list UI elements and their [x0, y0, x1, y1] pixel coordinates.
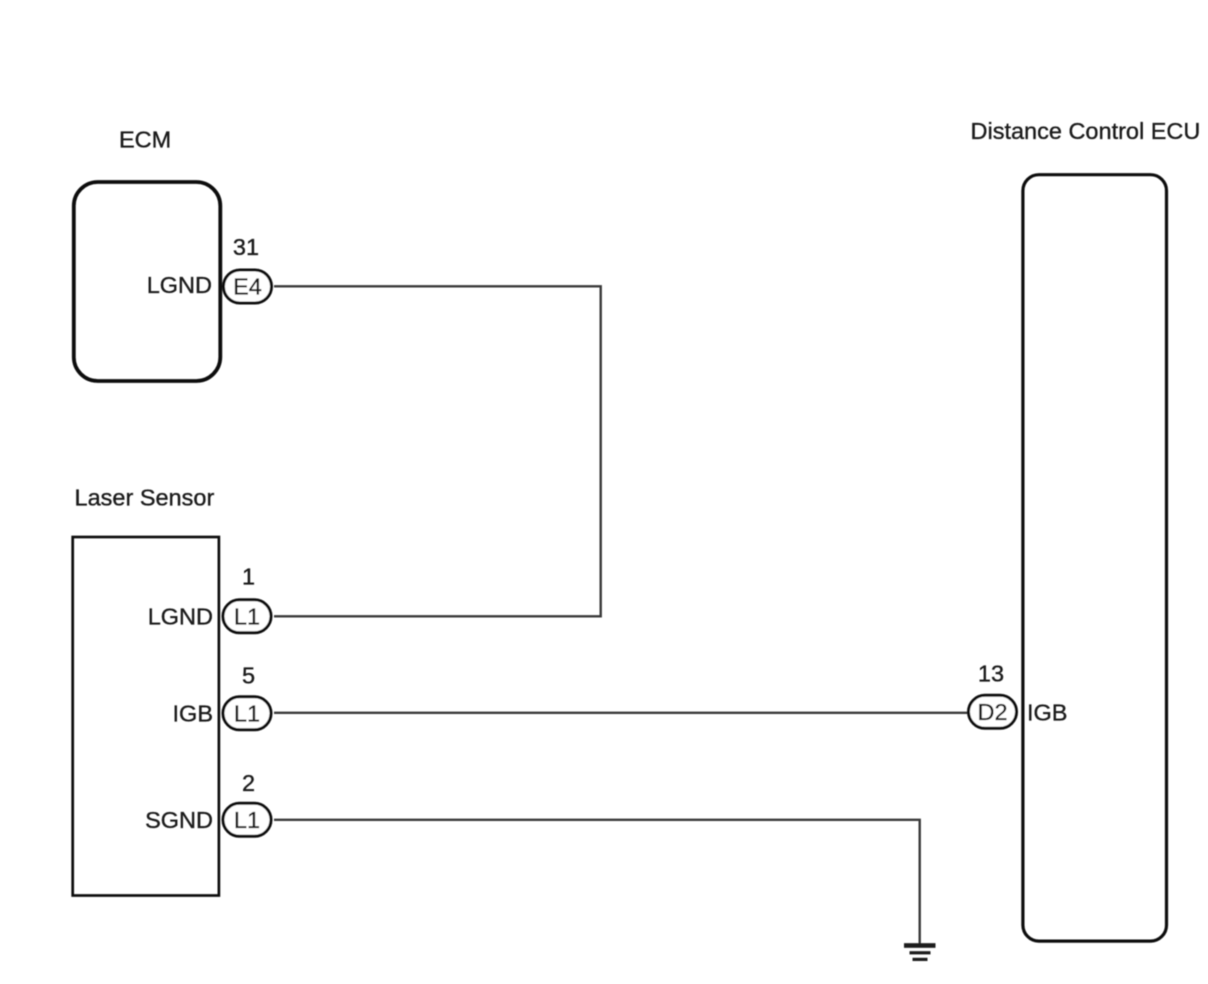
wire LGND: E4 to L1 pin 1: [274, 286, 601, 616]
svg-text:E4: E4: [233, 274, 262, 300]
connector pin D2 (Distance Control ECU pin 13): [969, 695, 1017, 728]
svg-text:L1: L1: [234, 807, 260, 833]
connector pin L1 (pin 1): [223, 600, 271, 633]
Distance Control ECU box U3: [1023, 175, 1167, 941]
svg-text:IGB: IGB: [1027, 700, 1067, 726]
svg-text:ECM: ECM: [119, 127, 171, 153]
svg-text:SGND: SGND: [145, 807, 213, 833]
Laser Sensor box U2: [73, 537, 219, 896]
svg-text:2: 2: [242, 770, 255, 796]
svg-text:LGND: LGND: [148, 604, 213, 630]
wire SGND: L1 pin 2 to ground: [274, 820, 920, 944]
ground symbol: [904, 943, 936, 961]
ECM box U1: [74, 182, 221, 381]
svg-text:1: 1: [242, 564, 255, 590]
wire IGB: L1 pin 5 to D2 pin 13: [274, 712, 968, 714]
connector pin E4 (ECM pin 31): [224, 270, 272, 303]
svg-text:LGND: LGND: [147, 272, 212, 298]
svg-text:L1: L1: [234, 604, 260, 630]
svg-text:5: 5: [242, 663, 255, 689]
svg-text:D2: D2: [977, 699, 1007, 725]
svg-text:IGB: IGB: [173, 701, 213, 727]
svg-text:L1: L1: [234, 701, 260, 727]
connector pin L1 (pin 5): [223, 697, 271, 730]
connector pin L1 (pin 2): [223, 803, 271, 836]
svg-text:Laser Sensor: Laser Sensor: [75, 485, 215, 511]
svg-text:13: 13: [978, 661, 1004, 687]
svg-text:Distance Control ECU: Distance Control ECU: [971, 118, 1201, 144]
svg-text:31: 31: [233, 234, 259, 260]
